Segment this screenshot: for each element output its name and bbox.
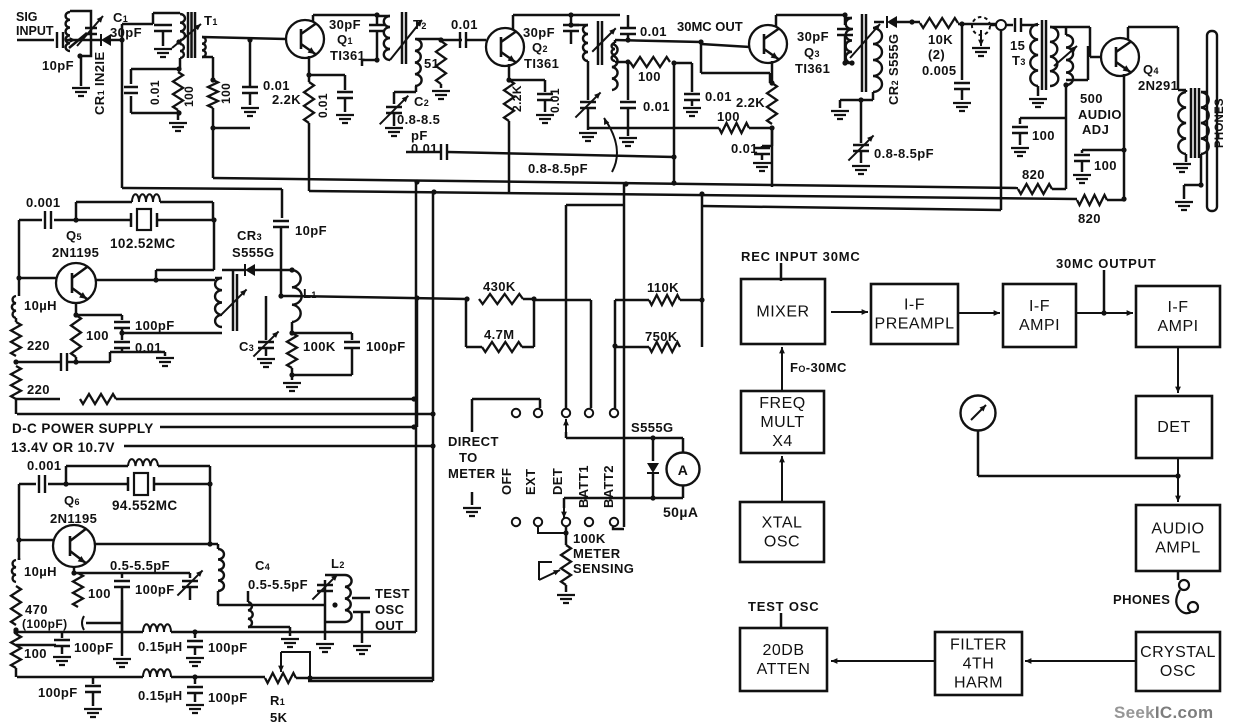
svg-text:0.15µH: 0.15µH bbox=[138, 688, 183, 703]
svg-text:2.2K: 2.2K bbox=[272, 92, 301, 107]
svg-text:S555G: S555G bbox=[232, 245, 274, 260]
svg-text:0.001: 0.001 bbox=[26, 195, 61, 210]
svg-text:PREAMPL: PREAMPL bbox=[875, 316, 955, 333]
svg-text:102.52MC: 102.52MC bbox=[110, 236, 176, 251]
svg-text:0.01: 0.01 bbox=[643, 99, 670, 114]
svg-text:100pF: 100pF bbox=[208, 640, 248, 655]
svg-text:100: 100 bbox=[24, 646, 47, 661]
svg-text:4TH: 4TH bbox=[963, 656, 995, 673]
svg-text:100: 100 bbox=[638, 69, 661, 84]
svg-text:15: 15 bbox=[1010, 38, 1025, 53]
svg-text:REC INPUT 30MC: REC INPUT 30MC bbox=[741, 249, 861, 264]
svg-text:HARM: HARM bbox=[954, 675, 1003, 692]
svg-text:100: 100 bbox=[717, 109, 740, 124]
svg-text:30pF: 30pF bbox=[523, 25, 555, 40]
svg-text:I-F: I-F bbox=[904, 297, 925, 314]
svg-text:94.552MC: 94.552MC bbox=[112, 498, 178, 513]
svg-text:AMPL: AMPL bbox=[1155, 540, 1201, 557]
svg-text:INPUT: INPUT bbox=[16, 24, 54, 38]
svg-text:10K: 10K bbox=[928, 32, 953, 47]
svg-text:0.01: 0.01 bbox=[731, 141, 758, 156]
svg-text:100pF: 100pF bbox=[366, 339, 406, 354]
svg-text:100: 100 bbox=[1032, 128, 1055, 143]
svg-text:CR1 IN2IE: CR1 IN2IE bbox=[92, 51, 107, 115]
svg-text:30pF: 30pF bbox=[329, 17, 361, 32]
svg-text:10µH: 10µH bbox=[24, 564, 57, 579]
svg-text:I-F: I-F bbox=[1167, 299, 1188, 316]
svg-text:100pF: 100pF bbox=[74, 640, 114, 655]
svg-text:BATT2: BATT2 bbox=[601, 465, 616, 508]
svg-text:0.01: 0.01 bbox=[411, 141, 438, 156]
svg-text:CRYSTAL: CRYSTAL bbox=[1140, 644, 1216, 661]
svg-text:100: 100 bbox=[88, 586, 111, 601]
svg-text:0.5-5.5pF: 0.5-5.5pF bbox=[248, 577, 308, 592]
svg-text:TI361: TI361 bbox=[330, 48, 365, 63]
svg-text:0.01: 0.01 bbox=[640, 24, 667, 39]
svg-text:0.01: 0.01 bbox=[148, 80, 162, 105]
svg-text:2N291: 2N291 bbox=[1138, 78, 1178, 93]
svg-text:0.005: 0.005 bbox=[922, 63, 957, 78]
svg-text:0.01: 0.01 bbox=[316, 93, 330, 118]
svg-text:0.5-5.5pF: 0.5-5.5pF bbox=[110, 558, 170, 573]
svg-text:0.15µH: 0.15µH bbox=[138, 639, 183, 654]
svg-text:TEST: TEST bbox=[375, 586, 410, 601]
svg-text:TI361: TI361 bbox=[795, 61, 830, 76]
svg-text:XTAL: XTAL bbox=[762, 515, 803, 532]
svg-text:51: 51 bbox=[424, 56, 439, 71]
svg-text:OSC: OSC bbox=[764, 534, 800, 551]
svg-text:DIRECT: DIRECT bbox=[448, 434, 499, 449]
svg-text:ADJ: ADJ bbox=[1082, 122, 1109, 137]
svg-text:220: 220 bbox=[27, 338, 50, 353]
svg-text:D-C POWER SUPPLY: D-C POWER SUPPLY bbox=[12, 421, 154, 436]
svg-text:10µH: 10µH bbox=[24, 298, 57, 313]
svg-text:FREQ: FREQ bbox=[759, 395, 805, 412]
svg-text:0.01: 0.01 bbox=[548, 88, 562, 113]
svg-text:750K: 750K bbox=[645, 329, 678, 344]
svg-text:CR2 S555G: CR2 S555G bbox=[886, 34, 901, 105]
svg-text:2.2K: 2.2K bbox=[736, 95, 765, 110]
svg-text:5K: 5K bbox=[270, 710, 288, 725]
svg-text:430K: 430K bbox=[483, 279, 516, 294]
svg-text:20DB: 20DB bbox=[762, 642, 804, 659]
svg-text:MULT: MULT bbox=[760, 414, 804, 431]
svg-text:AMPI: AMPI bbox=[1157, 318, 1198, 335]
svg-text:SeekIC.com: SeekIC.com bbox=[1114, 703, 1213, 722]
svg-text:4.7M: 4.7M bbox=[484, 327, 515, 342]
svg-text:SENSING: SENSING bbox=[573, 561, 634, 576]
svg-text:30MC OUTPUT: 30MC OUTPUT bbox=[1056, 256, 1157, 271]
svg-text:TEST OSC: TEST OSC bbox=[748, 599, 819, 614]
svg-text:100pF: 100pF bbox=[135, 582, 175, 597]
svg-text:100pF: 100pF bbox=[38, 685, 78, 700]
svg-text:10pF: 10pF bbox=[42, 58, 74, 73]
svg-text:820: 820 bbox=[1022, 167, 1045, 182]
svg-text:X4: X4 bbox=[772, 433, 793, 450]
svg-text:(100pF): (100pF) bbox=[22, 617, 67, 631]
svg-text:100: 100 bbox=[1094, 158, 1117, 173]
svg-text:820: 820 bbox=[1078, 211, 1101, 226]
svg-text:AUDIO: AUDIO bbox=[1151, 521, 1204, 538]
svg-text:AMPI: AMPI bbox=[1019, 317, 1060, 334]
svg-text:DET: DET bbox=[550, 468, 565, 495]
svg-text:FILTER: FILTER bbox=[950, 637, 1007, 654]
svg-text:BATT1: BATT1 bbox=[576, 465, 591, 508]
svg-text:100K: 100K bbox=[573, 531, 606, 546]
svg-text:30pF: 30pF bbox=[797, 29, 829, 44]
svg-text:SIG: SIG bbox=[16, 10, 38, 24]
svg-text:DET: DET bbox=[1157, 419, 1191, 436]
svg-text:ATTEN: ATTEN bbox=[757, 661, 811, 678]
svg-text:(2): (2) bbox=[928, 47, 945, 62]
svg-text:OSC: OSC bbox=[375, 602, 405, 617]
svg-text:0.001: 0.001 bbox=[27, 458, 62, 473]
svg-text:OFF: OFF bbox=[499, 468, 514, 495]
svg-text:PHONES: PHONES bbox=[1214, 98, 1226, 148]
svg-text:500: 500 bbox=[1080, 91, 1103, 106]
svg-text:EXT: EXT bbox=[523, 469, 538, 495]
svg-text:2.2K: 2.2K bbox=[510, 85, 524, 112]
svg-text:TO: TO bbox=[459, 450, 478, 465]
svg-text:0.01: 0.01 bbox=[705, 89, 732, 104]
svg-text:110K: 110K bbox=[647, 280, 679, 295]
svg-text:PHONES: PHONES bbox=[1113, 592, 1170, 607]
svg-text:10pF: 10pF bbox=[295, 223, 327, 238]
svg-text:100pF: 100pF bbox=[135, 318, 175, 333]
svg-text:100: 100 bbox=[182, 86, 196, 107]
svg-text:100: 100 bbox=[86, 328, 109, 343]
svg-text:100K: 100K bbox=[303, 339, 336, 354]
svg-text:220: 220 bbox=[27, 382, 50, 397]
svg-text:TI361: TI361 bbox=[524, 56, 559, 71]
svg-text:S555G: S555G bbox=[631, 420, 673, 435]
svg-text:100pF: 100pF bbox=[208, 690, 248, 705]
svg-text:30pF: 30pF bbox=[110, 25, 142, 40]
svg-text:METER: METER bbox=[448, 466, 496, 481]
svg-text:OSC: OSC bbox=[1160, 663, 1196, 680]
svg-text:I-F: I-F bbox=[1029, 298, 1050, 315]
svg-text:METER: METER bbox=[573, 546, 621, 561]
svg-text:2N1195: 2N1195 bbox=[50, 511, 97, 526]
svg-text:30MC OUT: 30MC OUT bbox=[677, 19, 743, 34]
svg-text:0.01: 0.01 bbox=[451, 17, 478, 32]
svg-text:50µA: 50µA bbox=[663, 504, 698, 520]
svg-text:13.4V OR 10.7V: 13.4V OR 10.7V bbox=[11, 440, 115, 455]
svg-text:2N1195: 2N1195 bbox=[52, 245, 99, 260]
svg-text:AUDIO: AUDIO bbox=[1078, 107, 1122, 122]
svg-text:0.8-8.5pF: 0.8-8.5pF bbox=[874, 146, 934, 161]
svg-text:0.8-8.5: 0.8-8.5 bbox=[397, 112, 440, 127]
svg-text:MIXER: MIXER bbox=[756, 304, 809, 321]
svg-text:0.01: 0.01 bbox=[263, 78, 290, 93]
svg-text:100: 100 bbox=[219, 83, 233, 104]
svg-text:A: A bbox=[678, 462, 689, 478]
svg-text:0.8-8.5pF: 0.8-8.5pF bbox=[528, 161, 588, 176]
svg-text:470: 470 bbox=[25, 602, 48, 617]
